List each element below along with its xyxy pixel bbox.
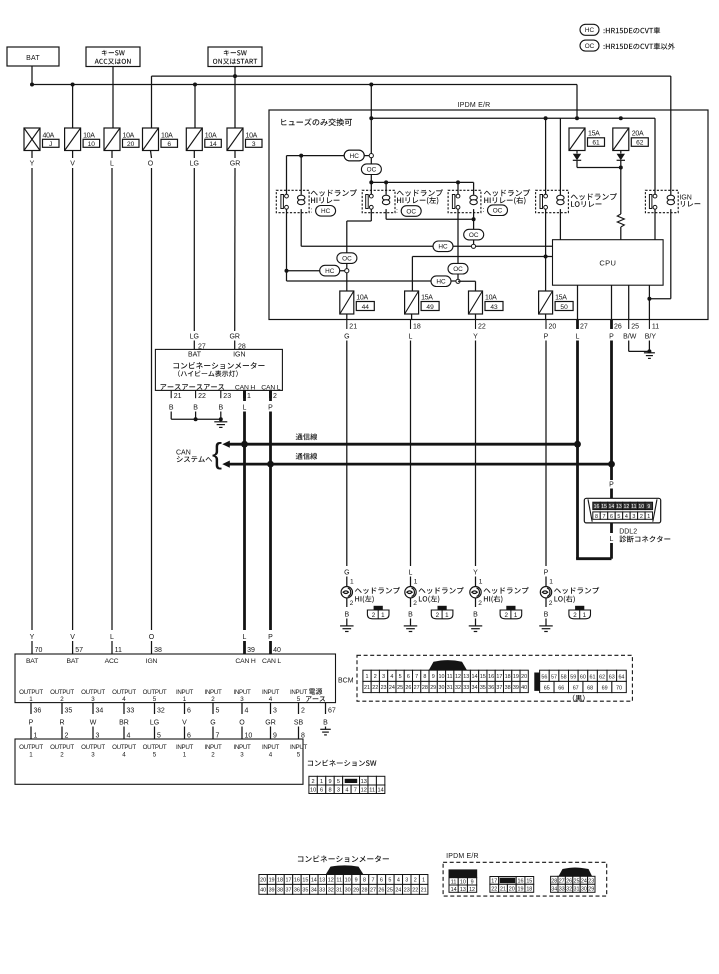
svg-text:3: 3 — [632, 514, 635, 520]
svg-text:OUTPUT: OUTPUT — [19, 744, 43, 751]
svg-text:INPUT: INPUT — [176, 689, 194, 696]
svg-text:25: 25 — [397, 685, 403, 691]
svg-text:BAT: BAT — [26, 658, 38, 665]
svg-text:B: B — [473, 612, 478, 619]
svg-text:4: 4 — [122, 696, 126, 703]
svg-text:31: 31 — [447, 685, 453, 691]
svg-text:10A: 10A — [485, 294, 497, 301]
svg-text:IGN: IGN — [679, 194, 691, 201]
svg-text:J: J — [49, 141, 52, 148]
svg-text:40: 40 — [273, 647, 281, 654]
svg-text:OC: OC — [342, 256, 352, 263]
svg-text:7: 7 — [354, 788, 357, 794]
svg-text:P: P — [544, 570, 549, 577]
svg-text:W: W — [90, 719, 97, 726]
svg-text:20: 20 — [509, 887, 515, 893]
svg-text:15: 15 — [601, 504, 607, 510]
svg-text:19: 19 — [269, 877, 275, 883]
svg-text:9: 9 — [432, 674, 435, 680]
svg-text:11: 11 — [447, 674, 453, 680]
svg-text:29: 29 — [353, 887, 359, 893]
svg-text:SB: SB — [294, 719, 304, 726]
svg-text:2: 2 — [573, 612, 577, 619]
svg-text:13: 13 — [463, 674, 469, 680]
svg-text:49: 49 — [426, 304, 434, 311]
svg-text:26: 26 — [566, 879, 572, 885]
svg-text:22: 22 — [372, 685, 378, 691]
svg-text:30: 30 — [438, 685, 444, 691]
svg-text:38: 38 — [505, 685, 511, 691]
svg-text:OUTPUT: OUTPUT — [112, 689, 136, 696]
svg-text:OUTPUT: OUTPUT — [143, 744, 167, 751]
svg-text:34: 34 — [472, 685, 478, 691]
svg-text:INPUT: INPUT — [204, 744, 222, 751]
svg-text:4: 4 — [122, 751, 126, 758]
svg-text:16: 16 — [594, 504, 600, 510]
svg-text:DDL2: DDL2 — [619, 529, 637, 536]
svg-text:1: 1 — [320, 779, 323, 785]
svg-text:OC: OC — [453, 266, 463, 273]
svg-text:21: 21 — [174, 393, 182, 400]
svg-text:7: 7 — [216, 732, 220, 739]
svg-text:10: 10 — [310, 788, 316, 794]
svg-text:IPDM E/R: IPDM E/R — [446, 853, 479, 860]
svg-text:P: P — [29, 719, 34, 726]
svg-text:43: 43 — [490, 304, 498, 311]
svg-text:34: 34 — [311, 887, 317, 893]
svg-text:1: 1 — [183, 751, 187, 758]
svg-text:5: 5 — [216, 707, 220, 714]
svg-text:Y: Y — [30, 160, 35, 167]
svg-text:B: B — [323, 719, 328, 726]
svg-text:BAT: BAT — [67, 658, 79, 665]
svg-text:27: 27 — [559, 879, 565, 885]
svg-text:4: 4 — [397, 877, 400, 883]
svg-text:14: 14 — [451, 887, 457, 893]
svg-text:2: 2 — [478, 600, 482, 607]
svg-text:INPUT: INPUT — [262, 744, 280, 751]
svg-text:31: 31 — [336, 887, 342, 893]
svg-text:5: 5 — [617, 514, 620, 520]
svg-text:70: 70 — [616, 686, 622, 692]
svg-text:1: 1 — [34, 732, 38, 739]
svg-text:16: 16 — [488, 674, 494, 680]
svg-text:L: L — [409, 570, 413, 577]
svg-text:3: 3 — [240, 696, 244, 703]
svg-text:20: 20 — [521, 674, 527, 680]
svg-text:20A: 20A — [632, 131, 644, 138]
svg-text:8: 8 — [301, 732, 305, 739]
svg-text:18: 18 — [277, 877, 283, 883]
svg-text:5: 5 — [297, 751, 301, 758]
svg-text:21: 21 — [349, 324, 357, 331]
svg-text:2: 2 — [312, 779, 315, 785]
svg-text:67: 67 — [573, 686, 579, 692]
svg-text:30: 30 — [345, 887, 351, 893]
svg-text:OUTPUT: OUTPUT — [112, 744, 136, 751]
svg-text:1: 1 — [183, 696, 187, 703]
svg-text:INPUT: INPUT — [233, 744, 251, 751]
svg-text::: : — [483, 207, 485, 214]
svg-text:70: 70 — [35, 647, 43, 654]
svg-text:31: 31 — [574, 887, 580, 893]
svg-text:7: 7 — [371, 877, 374, 883]
svg-text::: : — [396, 208, 398, 215]
svg-text:12: 12 — [469, 887, 475, 893]
svg-text:L: L — [243, 405, 247, 412]
svg-text:INPUT: INPUT — [290, 689, 308, 696]
svg-text:17: 17 — [285, 877, 291, 883]
svg-text:32: 32 — [455, 685, 461, 691]
svg-text:20: 20 — [549, 324, 557, 331]
svg-text:35: 35 — [480, 685, 486, 691]
svg-text:62: 62 — [636, 140, 644, 147]
svg-text:13: 13 — [319, 877, 325, 883]
svg-text:10: 10 — [438, 674, 444, 680]
svg-text:5: 5 — [153, 696, 157, 703]
svg-text:11: 11 — [631, 504, 636, 510]
svg-text:7: 7 — [602, 514, 605, 520]
svg-text:9: 9 — [328, 779, 331, 785]
svg-text:33: 33 — [319, 887, 325, 893]
svg-text:R: R — [59, 719, 64, 726]
svg-text:29: 29 — [430, 685, 436, 691]
svg-text::: : — [311, 208, 313, 215]
svg-text:1: 1 — [247, 393, 251, 400]
svg-text:L: L — [110, 160, 114, 167]
svg-text:15A: 15A — [588, 131, 600, 138]
svg-text:INPUT: INPUT — [233, 689, 251, 696]
svg-text:V: V — [182, 719, 187, 726]
svg-text:1: 1 — [514, 612, 518, 619]
svg-text:65: 65 — [544, 686, 550, 692]
svg-text:GR: GR — [265, 719, 276, 726]
svg-text:OUTPUT: OUTPUT — [50, 689, 74, 696]
svg-text:21: 21 — [500, 887, 506, 893]
svg-text:15A: 15A — [555, 294, 567, 301]
svg-text:Y: Y — [30, 634, 35, 641]
svg-text:24: 24 — [389, 685, 395, 691]
svg-text:20: 20 — [260, 877, 266, 883]
svg-text:6: 6 — [167, 141, 171, 148]
svg-text:60: 60 — [580, 675, 586, 681]
svg-text:15: 15 — [302, 877, 308, 883]
svg-text:28: 28 — [362, 887, 368, 893]
svg-text:HC: HC — [585, 27, 595, 34]
svg-text:28: 28 — [551, 879, 557, 885]
svg-text:BR: BR — [119, 719, 129, 726]
svg-text:35: 35 — [65, 707, 73, 714]
svg-text:22: 22 — [491, 887, 497, 893]
svg-text:9: 9 — [355, 877, 358, 883]
svg-text:O: O — [239, 719, 245, 726]
svg-text:21: 21 — [364, 685, 370, 691]
svg-text:11: 11 — [115, 647, 122, 654]
svg-text:9: 9 — [647, 504, 650, 510]
svg-text:56: 56 — [541, 675, 547, 681]
svg-text:17: 17 — [491, 879, 497, 885]
svg-text:26: 26 — [614, 324, 622, 331]
svg-text:40: 40 — [260, 887, 266, 893]
svg-text:26: 26 — [378, 887, 384, 893]
svg-text:CAN L: CAN L — [261, 384, 280, 391]
svg-text:1: 1 — [422, 877, 425, 883]
svg-text:34: 34 — [551, 887, 557, 893]
svg-text:OC: OC — [367, 167, 377, 174]
svg-text:B: B — [169, 405, 174, 412]
svg-text:27: 27 — [580, 324, 588, 331]
svg-text:61: 61 — [592, 140, 600, 147]
svg-text:HC: HC — [436, 279, 446, 286]
svg-text:14: 14 — [311, 877, 317, 883]
svg-text:OUTPUT: OUTPUT — [143, 689, 167, 696]
svg-text:1: 1 — [445, 612, 449, 619]
svg-text:37: 37 — [496, 685, 502, 691]
svg-text:15A: 15A — [421, 294, 433, 301]
svg-text:1: 1 — [366, 674, 369, 680]
svg-text:13: 13 — [616, 504, 622, 510]
svg-text:14: 14 — [472, 674, 478, 680]
svg-text:O: O — [149, 634, 155, 641]
svg-text:CPU: CPU — [599, 258, 616, 267]
svg-text:LG: LG — [150, 719, 159, 726]
svg-text:10A: 10A — [246, 132, 258, 139]
svg-text:2: 2 — [211, 696, 215, 703]
svg-text:59: 59 — [570, 675, 576, 681]
svg-text:23: 23 — [223, 393, 231, 400]
svg-text:3: 3 — [405, 877, 408, 883]
svg-text:61: 61 — [590, 675, 596, 681]
svg-text:10: 10 — [345, 877, 351, 883]
svg-text:13: 13 — [460, 887, 466, 893]
svg-text:19: 19 — [518, 887, 524, 893]
svg-text:G: G — [344, 570, 349, 577]
svg-text:66: 66 — [558, 686, 564, 692]
svg-text:3: 3 — [382, 674, 385, 680]
svg-text:12: 12 — [328, 877, 334, 883]
svg-text:23: 23 — [588, 879, 594, 885]
svg-text:39: 39 — [269, 887, 275, 893]
svg-text:67: 67 — [328, 707, 336, 714]
svg-text:14: 14 — [209, 141, 217, 148]
svg-text:24: 24 — [581, 879, 587, 885]
svg-text:6: 6 — [320, 788, 323, 794]
svg-text:36: 36 — [34, 707, 42, 714]
svg-text:OC: OC — [585, 43, 595, 50]
svg-text:GR: GR — [230, 160, 241, 167]
svg-text:14: 14 — [609, 504, 615, 510]
svg-text:P: P — [268, 405, 273, 412]
svg-text:1: 1 — [350, 579, 354, 586]
svg-text:INPUT: INPUT — [262, 689, 280, 696]
svg-text:2: 2 — [301, 707, 305, 714]
svg-text:35: 35 — [302, 887, 308, 893]
svg-text:CAN L: CAN L — [262, 658, 281, 665]
svg-text:HC: HC — [350, 153, 360, 160]
svg-text:18: 18 — [413, 324, 421, 331]
svg-text:7: 7 — [415, 674, 418, 680]
svg-text:6: 6 — [380, 877, 383, 883]
svg-text:HC: HC — [438, 244, 448, 251]
svg-text:19: 19 — [513, 674, 519, 680]
svg-text:22: 22 — [478, 324, 486, 331]
svg-text:V: V — [70, 160, 75, 167]
svg-text:33: 33 — [559, 887, 565, 893]
svg-text:B: B — [218, 405, 223, 412]
svg-text:10A: 10A — [123, 132, 135, 139]
svg-text:6: 6 — [187, 732, 191, 739]
svg-text:P: P — [268, 634, 273, 641]
svg-text:22: 22 — [412, 887, 418, 893]
svg-text:3: 3 — [96, 732, 100, 739]
svg-text:INPUT: INPUT — [204, 689, 222, 696]
svg-text:INPUT: INPUT — [176, 744, 194, 751]
svg-text:6: 6 — [407, 674, 410, 680]
svg-text:15: 15 — [480, 674, 486, 680]
svg-text:G: G — [344, 334, 349, 341]
svg-text:OUTPUT: OUTPUT — [81, 744, 105, 751]
svg-text:69: 69 — [602, 686, 608, 692]
svg-text:LG: LG — [190, 160, 199, 167]
svg-text:1: 1 — [381, 612, 385, 619]
svg-text:21: 21 — [421, 887, 427, 893]
svg-text:27: 27 — [414, 685, 420, 691]
svg-text:OUTPUT: OUTPUT — [81, 689, 105, 696]
svg-text:44: 44 — [362, 304, 370, 311]
svg-text:4: 4 — [345, 788, 348, 794]
svg-text:1: 1 — [583, 612, 587, 619]
svg-text:23: 23 — [381, 685, 387, 691]
svg-text:37: 37 — [285, 887, 291, 893]
svg-text:6: 6 — [187, 707, 191, 714]
svg-text:18: 18 — [505, 674, 511, 680]
svg-text:33: 33 — [463, 685, 469, 691]
svg-text:32: 32 — [157, 707, 165, 714]
svg-text:1: 1 — [549, 579, 553, 586]
svg-text:57: 57 — [75, 647, 83, 654]
svg-text:P: P — [544, 334, 549, 341]
svg-text:12: 12 — [361, 788, 367, 794]
svg-text:L: L — [576, 334, 580, 341]
svg-text:OUTPUT: OUTPUT — [50, 744, 74, 751]
svg-text:6: 6 — [610, 514, 613, 520]
svg-text:25: 25 — [574, 879, 580, 885]
svg-text:IGN: IGN — [146, 658, 158, 665]
svg-text:2: 2 — [211, 751, 215, 758]
svg-text:5: 5 — [399, 674, 402, 680]
svg-text:1: 1 — [29, 696, 33, 703]
svg-text:10A: 10A — [161, 132, 173, 139]
svg-text:V: V — [70, 634, 75, 641]
svg-text:8: 8 — [595, 514, 598, 520]
svg-text:L: L — [409, 334, 413, 341]
svg-text:10A: 10A — [205, 132, 217, 139]
svg-text:11: 11 — [652, 324, 659, 331]
svg-text:57: 57 — [551, 675, 557, 681]
svg-text:2: 2 — [640, 514, 643, 520]
svg-text:2: 2 — [60, 696, 64, 703]
svg-text:32: 32 — [566, 887, 572, 893]
svg-text:CAN: CAN — [176, 449, 191, 456]
svg-text:2: 2 — [436, 612, 440, 619]
svg-text:2: 2 — [413, 600, 417, 607]
svg-text:64: 64 — [618, 675, 624, 681]
svg-text:ACC: ACC — [105, 658, 119, 665]
svg-text:INPUT: INPUT — [290, 744, 308, 751]
svg-text:58: 58 — [561, 675, 567, 681]
svg-text:10: 10 — [88, 141, 96, 148]
svg-text:12: 12 — [455, 674, 461, 680]
svg-text:10A: 10A — [83, 132, 95, 139]
svg-text:10: 10 — [245, 732, 253, 739]
svg-text:40: 40 — [521, 685, 527, 691]
svg-text:OC: OC — [493, 208, 503, 215]
svg-text:B: B — [544, 612, 549, 619]
svg-text:8: 8 — [423, 674, 426, 680]
svg-text:P: P — [609, 334, 614, 341]
svg-text:3: 3 — [273, 707, 277, 714]
svg-text:26: 26 — [405, 685, 411, 691]
svg-text:39: 39 — [247, 647, 255, 654]
svg-text:O: O — [148, 160, 154, 167]
svg-text:5: 5 — [297, 696, 301, 703]
svg-text:B/W: B/W — [623, 334, 637, 341]
svg-text:50: 50 — [560, 304, 568, 311]
svg-text:2: 2 — [60, 751, 64, 758]
svg-text:10A: 10A — [356, 294, 368, 301]
svg-text:16: 16 — [294, 877, 300, 883]
svg-text:13: 13 — [361, 779, 367, 785]
svg-text:3: 3 — [91, 751, 95, 758]
svg-text:B: B — [193, 405, 198, 412]
svg-text:20: 20 — [127, 141, 135, 148]
svg-text:15: 15 — [526, 879, 532, 885]
svg-text:4: 4 — [390, 674, 393, 680]
svg-text:OUTPUT: OUTPUT — [19, 689, 43, 696]
svg-text:4: 4 — [269, 696, 273, 703]
svg-text:5: 5 — [157, 732, 161, 739]
svg-text:32: 32 — [328, 887, 334, 893]
svg-text:CAN H: CAN H — [235, 658, 255, 665]
svg-text:P: P — [609, 482, 614, 489]
svg-text:38: 38 — [277, 887, 283, 893]
svg-text:1: 1 — [479, 579, 483, 586]
svg-text:5: 5 — [337, 779, 340, 785]
svg-text:L: L — [610, 536, 614, 543]
svg-text:30: 30 — [581, 887, 587, 893]
svg-text:1: 1 — [414, 579, 418, 586]
svg-text:B: B — [344, 612, 349, 619]
svg-text:40A: 40A — [43, 132, 55, 139]
svg-text:18: 18 — [526, 887, 532, 893]
svg-text:3: 3 — [91, 696, 95, 703]
svg-text:BAT: BAT — [26, 55, 40, 62]
svg-text:11: 11 — [336, 877, 342, 883]
svg-text:33: 33 — [127, 707, 135, 714]
svg-text:2: 2 — [273, 393, 277, 400]
svg-text:16: 16 — [518, 879, 524, 885]
svg-text:24: 24 — [395, 887, 401, 893]
svg-text:4: 4 — [269, 751, 273, 758]
svg-text:2: 2 — [414, 877, 417, 883]
svg-text:10: 10 — [638, 504, 644, 510]
svg-text:5: 5 — [153, 751, 157, 758]
svg-text:2: 2 — [372, 612, 376, 619]
svg-text:G: G — [210, 719, 215, 726]
svg-text:2: 2 — [374, 674, 377, 680]
svg-text:25: 25 — [387, 887, 393, 893]
svg-text:CAN H: CAN H — [235, 384, 255, 391]
